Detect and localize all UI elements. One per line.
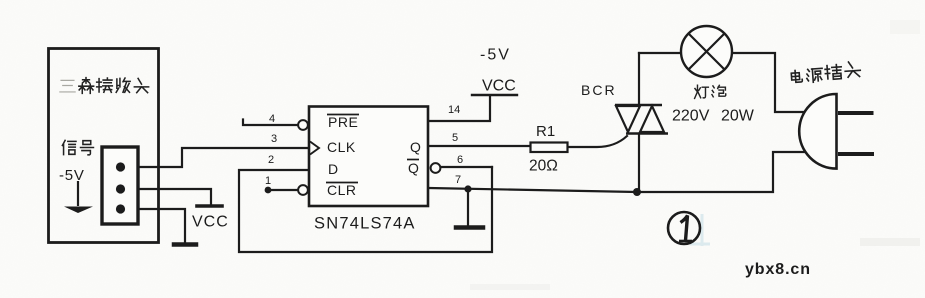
svg-text:-5V: -5V [480,47,511,64]
svg-text:3: 3 [271,133,277,145]
svg-text:BCR: BCR [581,82,617,98]
svg-text:6: 6 [457,154,463,166]
svg-text:VCC: VCC [482,78,516,95]
svg-text:14: 14 [448,104,460,116]
svg-text:-5V: -5V [59,167,85,184]
svg-text:SN74LS74A: SN74LS74A [314,215,416,233]
svg-text:CLK: CLK [327,139,356,155]
svg-text:220V: 220V [672,108,710,125]
svg-text:20Ω: 20Ω [529,158,558,175]
svg-text:ybx8.cn: ybx8.cn [745,261,811,278]
svg-text:CLR: CLR [327,182,357,198]
svg-text:VCC: VCC [192,214,229,231]
svg-text:Q: Q [408,160,419,176]
svg-text:Q: Q [410,139,421,155]
svg-text:5: 5 [452,132,458,144]
svg-text:2: 2 [268,154,274,166]
svg-text:PRE: PRE [328,114,358,130]
svg-text:4: 4 [269,113,275,125]
svg-text:R1: R1 [536,123,555,140]
svg-text:D: D [328,161,339,177]
svg-text:1: 1 [265,175,271,187]
svg-text:20W: 20W [721,108,755,125]
svg-text:7: 7 [455,174,461,186]
